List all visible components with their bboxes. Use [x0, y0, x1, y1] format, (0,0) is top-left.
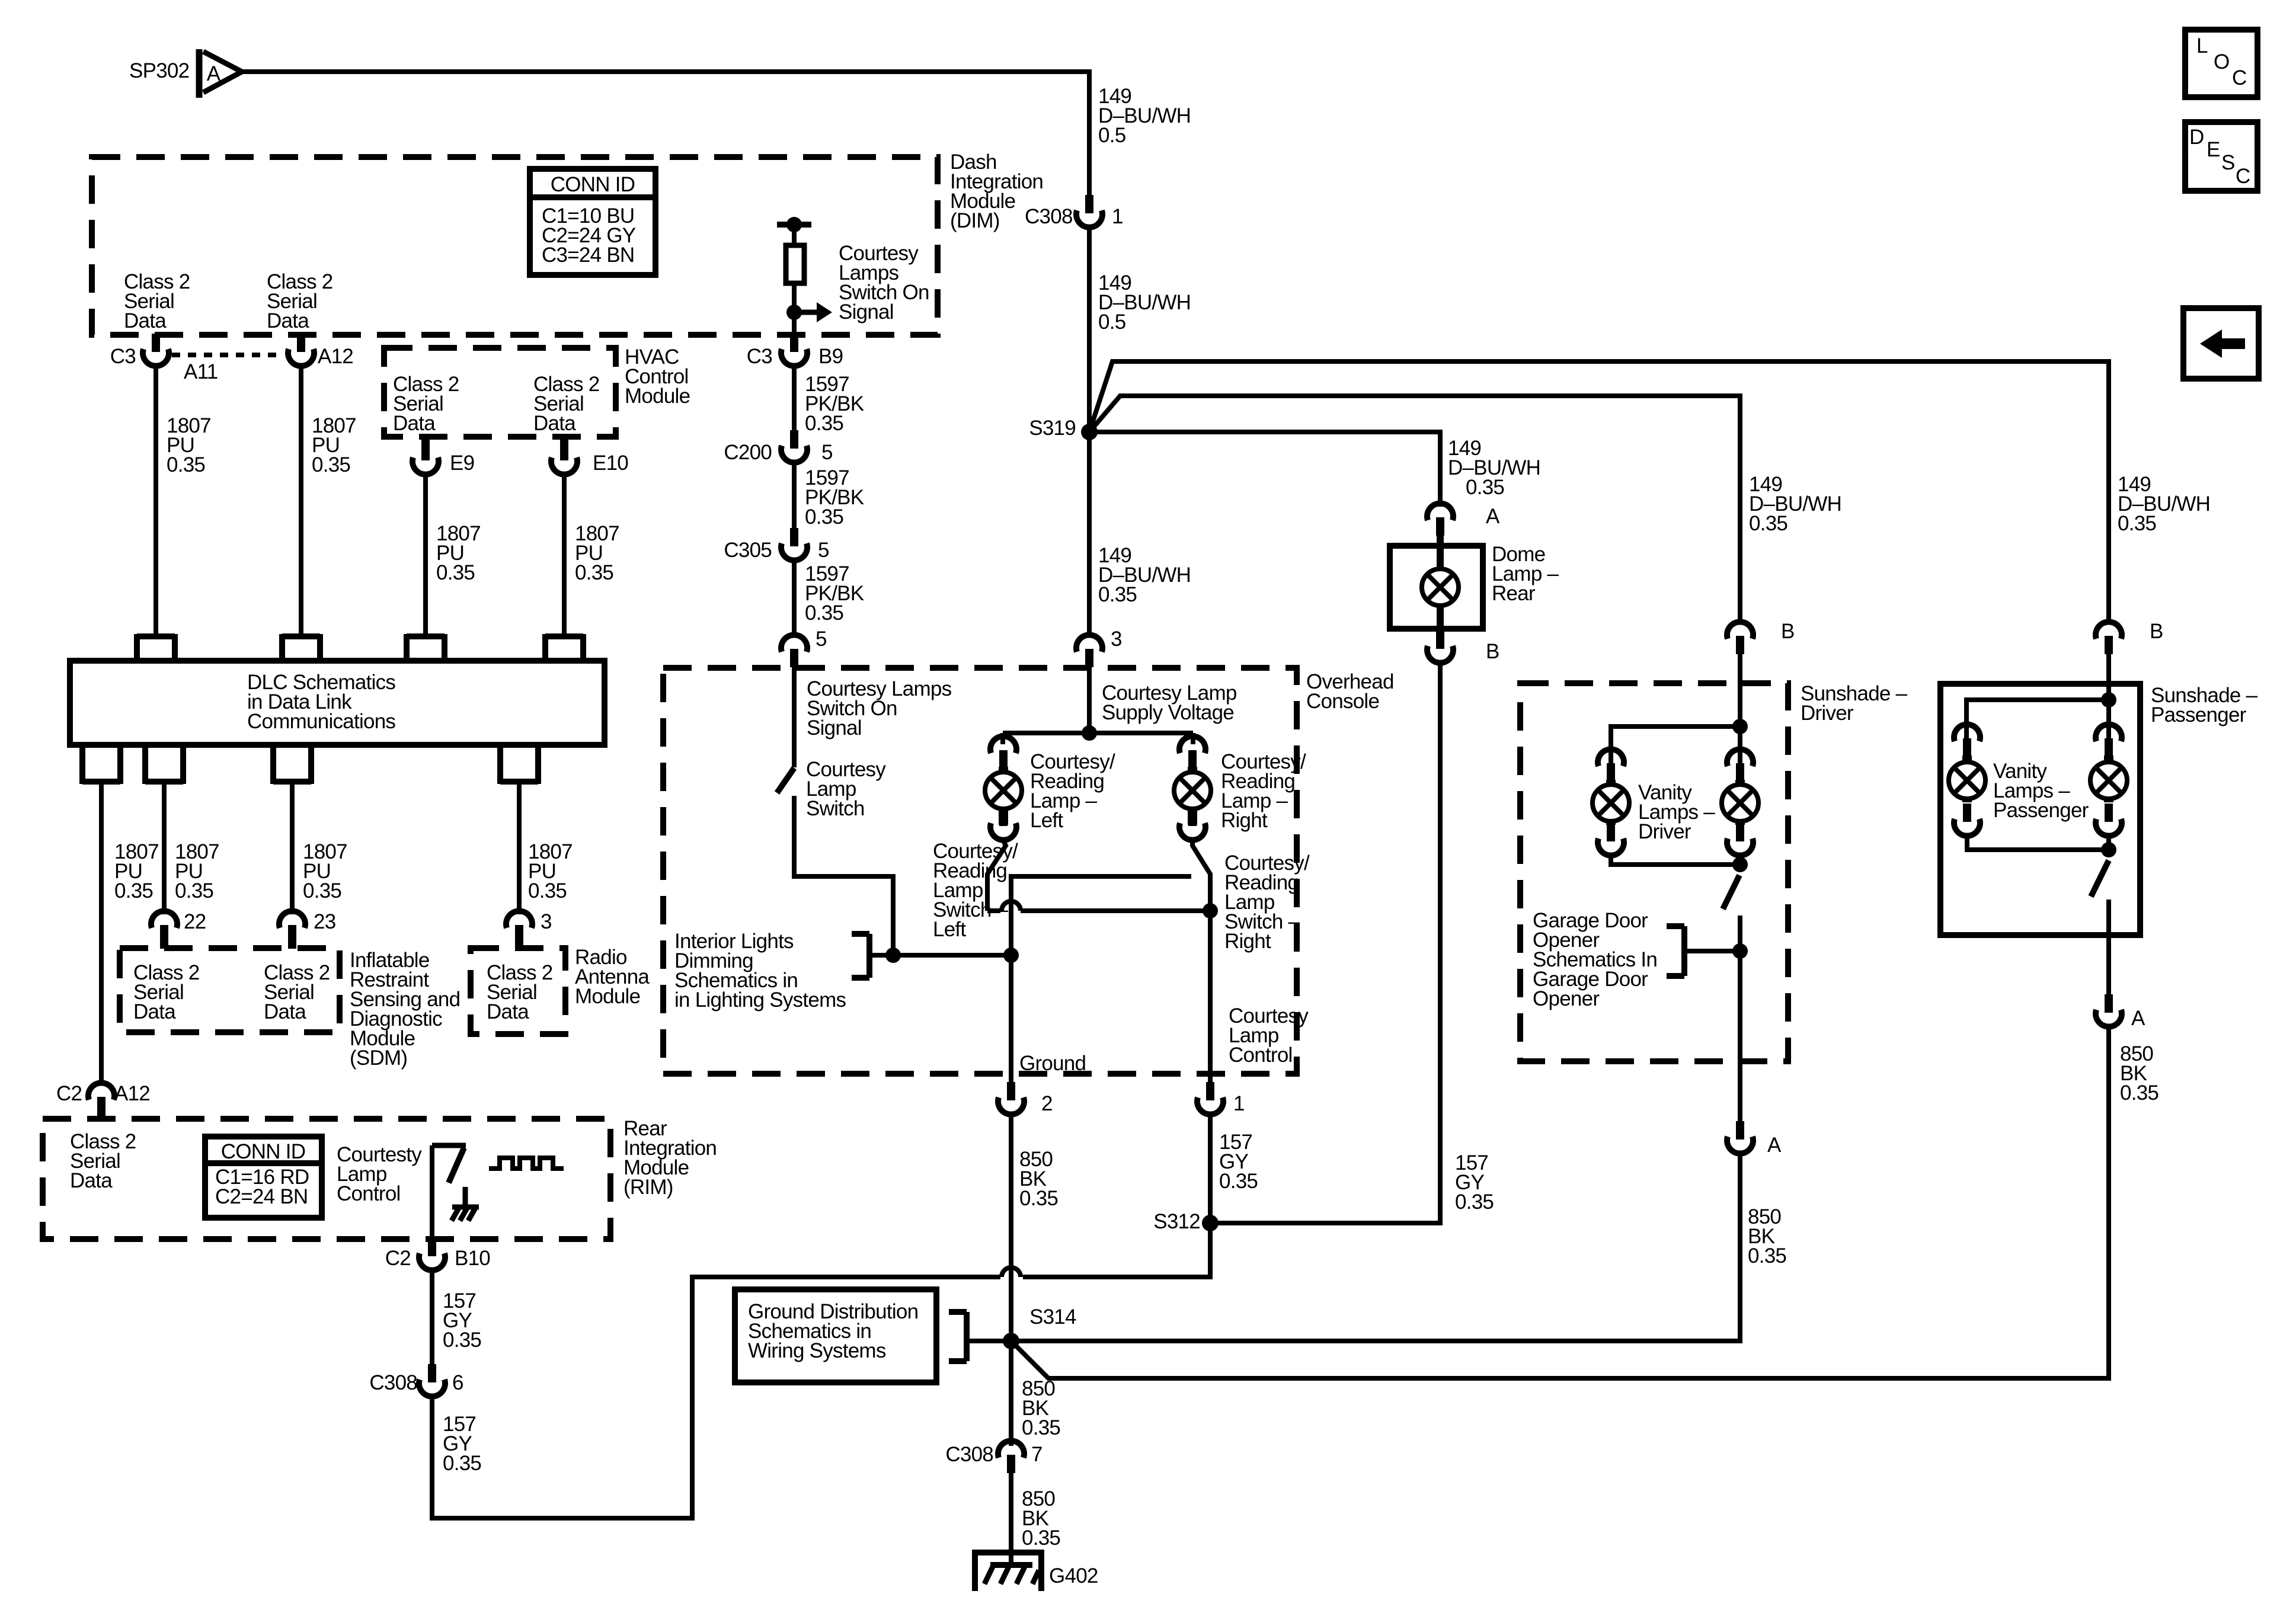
connector C3 pin B9 [781, 334, 807, 366]
wire C200 to C305 [792, 463, 797, 531]
svg-text:C2: C2 [385, 1247, 411, 1270]
svg-text:B: B [2150, 620, 2163, 643]
svg-text:23: 23 [314, 910, 335, 933]
svg-text:C: C [2232, 66, 2247, 89]
hop 157 GY over 850 BK [1002, 1267, 1021, 1277]
node garage door junction [1732, 943, 1748, 959]
wire driver B to junction [1738, 654, 1742, 764]
box dome lamp [1390, 546, 1483, 629]
connector courtesy lamp left top [990, 736, 1016, 769]
switch courtesy lamp control (RIM) [432, 1145, 466, 1183]
switch reading lamp right [1192, 841, 1210, 911]
svg-text:C3: C3 [110, 345, 136, 368]
box back-arrow [2183, 308, 2259, 379]
wire dimming reference line [869, 953, 1011, 958]
ground G402 [975, 1549, 1041, 1591]
svg-text:C3: C3 [747, 345, 772, 368]
svg-text:C308: C308 [945, 1443, 993, 1466]
module Radio Antenna dashed box [471, 948, 565, 1034]
svg-text:E9: E9 [450, 452, 474, 475]
connector vanity passenger right bottom [2096, 804, 2122, 836]
svg-text:6: 6 [452, 1371, 463, 1394]
wire passenger supply to left lamp [1966, 700, 2109, 741]
node line B at right switch [1203, 903, 1218, 918]
node arrow junction [786, 305, 802, 320]
lamp vanity passenger right [2090, 756, 2127, 802]
lamp vanity driver right [1722, 780, 1758, 825]
svg-text:L: L [2196, 34, 2208, 57]
svg-text:CONN ID: CONN ID [551, 173, 635, 196]
svg-text:5: 5 [816, 628, 827, 651]
module HVAC dashed box [384, 348, 616, 437]
svg-text:5: 5 [821, 441, 833, 464]
svg-text:A: A [1767, 1134, 1782, 1157]
wire supply corner left [1000, 733, 1005, 744]
wire line A right-switch feed [1011, 876, 1191, 955]
connector sunshade passenger pin A [2096, 994, 2122, 1027]
lamp dome [1422, 569, 1459, 606]
resistor (courtesy lamps switch pull-up) [786, 245, 804, 283]
node dimming junction 2 [1003, 948, 1019, 963]
svg-text:S319: S319 [1029, 417, 1076, 440]
wire console pin5 to switch [792, 667, 797, 767]
wire driver lamps bottom bus [1611, 856, 1740, 865]
goalpost DLC wire 3 [273, 745, 311, 784]
conn-id table (RIM) [205, 1137, 322, 1218]
wire 1807 PU DLC to SDM 23 [290, 782, 295, 914]
lamp vanity passenger left [1949, 756, 1985, 802]
svg-text:C305: C305 [724, 539, 772, 562]
wire 850 BK pin2 to S314 [1009, 1115, 1013, 1333]
wire line B continued [1021, 908, 1210, 913]
goalpost C3 wire to DLC [137, 634, 175, 661]
svg-text:C308: C308 [369, 1371, 417, 1394]
connector C308 pin 7 [998, 1441, 1024, 1473]
splice SP302 arrow symbol [199, 49, 242, 98]
goalpost A12 wire to DLC [282, 634, 320, 661]
svg-text:E: E [2207, 138, 2220, 161]
bracket garage door opener [1667, 926, 1684, 976]
node driver bottom junction [1732, 857, 1748, 872]
svg-text:SP302: SP302 [129, 59, 189, 82]
svg-text:A11: A11 [184, 360, 218, 383]
connector radio pin 3 [506, 911, 532, 949]
wire 1807 PU (E9) to DLC [423, 475, 428, 636]
svg-text:A: A [1486, 505, 1500, 528]
module RIM dashed box [43, 1119, 610, 1239]
svg-text:1: 1 [1233, 1092, 1245, 1115]
goalpost DLC wire 2 [145, 745, 183, 784]
svg-text:C200: C200 [724, 441, 772, 464]
wire courtesy lamp switch to dimming node [794, 796, 893, 955]
wire supply corner right [1191, 733, 1195, 744]
bracket ground distribution [949, 1312, 967, 1361]
connector vanity driver right bottom [1727, 823, 1753, 856]
svg-text:B: B [1486, 640, 1499, 663]
box Ground Distribution Schematics [735, 1289, 936, 1382]
goalpost E9 wire to DLC [407, 634, 445, 661]
wire S319 down to console pin 3 [1087, 432, 1092, 636]
svg-text:2: 2 [1041, 1092, 1053, 1115]
svg-text:C: C [2236, 165, 2250, 188]
wire RIM switch to C2 B10 [430, 1145, 434, 1239]
node S312 [1202, 1215, 1219, 1231]
svg-text:G402: G402 [1049, 1564, 1098, 1587]
switch courtesy lamp (console) [777, 768, 794, 793]
connector C308 pin 6 [419, 1364, 445, 1397]
wire 1807 PU (E10) to DLC [562, 475, 567, 636]
connector vanity driver left top [1598, 749, 1624, 782]
box LOC [2185, 30, 2257, 97]
connector C2 pin B10 [419, 1238, 445, 1270]
wire ground to pin 2 [1009, 955, 1013, 1083]
wire 1807 PU (C3) to DLC [154, 367, 158, 636]
svg-text:A12: A12 [318, 345, 353, 368]
svg-text:D: D [2189, 126, 2204, 149]
connector vanity driver left bottom [1598, 823, 1624, 856]
connector C308 pin 1 [1076, 195, 1102, 228]
svg-text:S312: S312 [1153, 1210, 1200, 1233]
box DESC [2185, 122, 2257, 191]
wire supply to lamps [1003, 731, 1193, 735]
wire 850 BK to G402 [1009, 1473, 1013, 1549]
node dimming junction 1 [885, 948, 901, 963]
wire S314 to C308 pin 7 [1009, 1341, 1013, 1446]
goalpost DLC wire 1 [82, 745, 120, 784]
box DLC Schematics [70, 661, 605, 745]
connector SDM pin 22 [151, 911, 177, 949]
node driver supply junction [1732, 719, 1748, 734]
wire 157 GY to C308 pin 6 [430, 1271, 434, 1364]
connector vanity passenger left bottom [1954, 804, 1980, 836]
svg-text:A: A [207, 62, 221, 85]
svg-text:B9: B9 [818, 345, 843, 368]
svg-text:Sunshade –Passenger: Sunshade –Passenger [2151, 684, 2258, 726]
connector E9 [412, 437, 439, 475]
svg-text:7: 7 [1031, 1443, 1043, 1466]
wire 157 GY pin1 to S312 [1208, 1115, 1213, 1223]
svg-text:Ground: Ground [1019, 1052, 1086, 1075]
wire S314 to passenger sunshade ground [1011, 1028, 2109, 1378]
svg-text:5: 5 [818, 539, 829, 562]
wire to resistor [792, 225, 797, 245]
wire 1807 PU DLC to C2 A12 (RIM) [99, 782, 104, 1084]
wire 157 GY dome to S312 corner [1210, 664, 1440, 1223]
svg-text:C2: C2 [56, 1082, 82, 1105]
wire 157 GY from C308-6 to S312 [432, 1277, 1000, 1518]
connector courtesy lamp right top [1179, 736, 1205, 769]
svg-text:3: 3 [541, 910, 552, 933]
signal arrow (courtesy lamps switch on signal) [794, 302, 832, 322]
switch sunshade driver [1723, 875, 1739, 909]
wire passenger right lamp to junction [2106, 837, 2111, 850]
wire lamp-switch-left to right switch (line B) [987, 908, 1000, 913]
lamp courtesy/reading right [1174, 767, 1211, 825]
connector dome lamp pin A [1427, 503, 1453, 536]
ground symbol (RIM internal) [452, 1187, 479, 1221]
wire 149 D-BU/WH 0.5 from C308 to S319 [1087, 228, 1092, 432]
connector C305 pin 5 [781, 528, 807, 561]
connector vanity passenger left top [1954, 724, 1980, 757]
connector console pin 5 [781, 635, 807, 667]
svg-text:CONN ID: CONN ID [221, 1140, 306, 1163]
node S314 [1003, 1333, 1019, 1349]
wire S314 to driver sunshade ground [1011, 1154, 1740, 1341]
svg-text:C1=16 RDC2=24 BN: C1=16 RDC2=24 BN [215, 1166, 309, 1208]
wire 1807 PU DLC to radio 3 [517, 782, 522, 914]
wire 1807 PU DLC to SDM 22 [162, 782, 167, 914]
lamp vanity driver left [1593, 780, 1629, 825]
connector vanity passenger right top [2096, 724, 2122, 757]
svg-text:S: S [2221, 151, 2235, 174]
wire S319 branch 3 to dome lamp [1089, 432, 1440, 507]
wire S319 branch 2 to sunshade driver [1089, 396, 1740, 621]
connector console pin 1 [1197, 1082, 1223, 1115]
connector courtesy lamp right bottom [1179, 808, 1205, 840]
wire S319 branch 1 to sunshade passenger [1089, 361, 2109, 621]
svg-text:O: O [2214, 50, 2229, 73]
connector SDM pin 23 [279, 911, 305, 949]
module DIM dashed box [92, 157, 938, 335]
dashed data link A11-A12 [172, 353, 283, 357]
switch sunshade passenger [2091, 860, 2109, 897]
wire pin3 to supply [1087, 667, 1092, 733]
node supply junction [1082, 725, 1097, 741]
goalpost E10 wire to DLC [545, 634, 583, 661]
wire 1807 PU (A12) to DLC [299, 367, 303, 636]
switch reading lamp left [987, 841, 1006, 911]
svg-text:0.35: 0.35 [1466, 476, 1504, 499]
svg-text:B10: B10 [455, 1247, 490, 1270]
connector sunshade passenger pin B [2096, 622, 2122, 654]
connector vanity driver right top [1727, 749, 1753, 782]
svg-text:C308: C308 [1025, 205, 1073, 228]
wire bracket to S314 [967, 1339, 1011, 1343]
wire passenger lamps bottom bus [1967, 837, 2109, 850]
node top bar in DIM [777, 217, 811, 232]
wire garage door bracket [1684, 949, 1740, 953]
wire 1597 PK/BK to console pin 5 [792, 561, 797, 636]
svg-text:S314: S314 [1029, 1305, 1076, 1329]
box Sunshade Passenger [1940, 684, 2140, 935]
wire passenger switch to A [2106, 900, 2111, 994]
wire driver right lamp to junction [1738, 856, 1742, 865]
connector C200 pin 5 [781, 430, 807, 463]
goalpost DLC wire 4 [500, 745, 538, 784]
connector sunshade driver pin A [1727, 1121, 1753, 1154]
node passenger bottom junction [2101, 842, 2116, 857]
module Overhead Console dashed box [663, 668, 1297, 1074]
hop line B over ground wire [1002, 901, 1021, 911]
svg-text:Courtesy LampSupply Voltage: Courtesy LampSupply Voltage [1102, 681, 1237, 724]
svg-text:C1=10 BUC2=24 GYC3=24 BN: C1=10 BUC2=24 GYC3=24 BN [542, 204, 636, 267]
svg-text:A: A [2131, 1007, 2145, 1030]
svg-text:B: B [1781, 620, 1795, 643]
module SDM dashed box [120, 948, 340, 1032]
connector console pin 2 [998, 1082, 1024, 1115]
wire driver switch to A [1738, 916, 1742, 1122]
square wave symbol (RIM) [489, 1158, 564, 1169]
connector dome lamp pin B [1427, 630, 1453, 663]
wire control to pin 1 [1208, 911, 1213, 1083]
connector E10 [551, 437, 577, 475]
module Sunshade Driver dashed box [1520, 683, 1788, 1061]
svg-text:22: 22 [184, 910, 206, 933]
connector C3 pin A11 (DIM) [143, 334, 169, 366]
node passenger supply junction [2101, 692, 2116, 708]
wire 149 D-BU/WH 0.5 from SP302 to C308 pin 1 [243, 72, 1089, 196]
conn-id table (DIM) [530, 169, 655, 275]
lamp courtesy/reading left [985, 767, 1022, 825]
wire passenger B to junction [2106, 654, 2111, 741]
svg-text:A12: A12 [114, 1082, 150, 1105]
wire 1597 PK/BK to C200 [792, 367, 797, 431]
wire 157 GY hop to S312 [1023, 1223, 1210, 1277]
svg-text:1: 1 [1112, 205, 1123, 228]
bracket interior lights dimming [852, 934, 869, 978]
connector sunshade driver pin B [1727, 622, 1753, 654]
connector A12 (DIM) [288, 334, 314, 366]
wire through dome lamp [1437, 535, 1444, 646]
wire driver supply to left lamp [1611, 726, 1740, 764]
connector C2 pin A12 (RIM) [88, 1083, 114, 1120]
svg-text:E10: E10 [593, 452, 628, 475]
wire resistor to arrow node [792, 283, 797, 332]
connector console pin 3 [1076, 635, 1102, 667]
connector courtesy lamp left bottom [990, 808, 1016, 840]
svg-text:3: 3 [1111, 628, 1122, 651]
node S319 [1081, 424, 1098, 440]
